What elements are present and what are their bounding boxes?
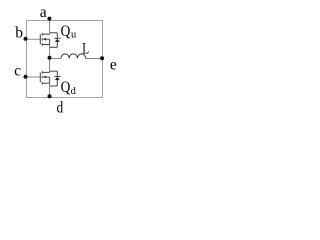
svg-text:c: c — [14, 63, 21, 80]
svg-text:d: d — [57, 100, 64, 117]
svg-text:u: u — [71, 30, 77, 41]
svg-text:b: b — [15, 24, 23, 41]
svg-text:Q: Q — [61, 79, 71, 96]
svg-text:a: a — [40, 4, 47, 21]
svg-text:L: L — [82, 39, 89, 56]
svg-text:e: e — [110, 57, 117, 74]
svg-text:Q: Q — [61, 23, 71, 40]
svg-text:d: d — [71, 86, 77, 97]
